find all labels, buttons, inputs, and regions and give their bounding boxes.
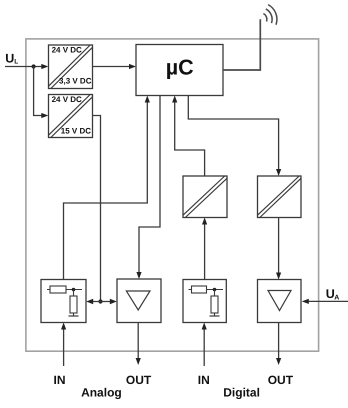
wire UL input xyxy=(5,64,48,69)
analog input conditioning block A xyxy=(41,280,86,323)
wire analog OUT terminal xyxy=(136,323,141,366)
U5 diagonal isolation bars xyxy=(258,176,302,218)
svg-text:3,3 V DC: 3,3 V DC xyxy=(59,77,92,86)
wire analog IN terminal xyxy=(61,323,66,367)
svg-text:24 V DC: 24 V DC xyxy=(52,95,82,104)
svg-text:OUT: OUT xyxy=(268,373,294,387)
analog bus bidirectional arrow xyxy=(86,299,117,305)
svg-text:U: U xyxy=(5,52,14,66)
svg-text:OUT: OUT xyxy=(126,373,152,387)
amplifier triangle block B xyxy=(126,291,150,310)
digital output driver block D xyxy=(258,280,302,323)
resistor R1 series xyxy=(50,286,66,293)
junction 15V rail tee xyxy=(98,299,102,303)
wire R4 to rail xyxy=(214,313,216,316)
svg-text:Analog: Analog xyxy=(81,385,122,399)
junction UL split xyxy=(31,64,35,68)
dc converter U1 box 24V/3.3V xyxy=(49,45,93,89)
svg-text:L: L xyxy=(14,59,18,66)
resistor R3 series xyxy=(192,286,207,293)
isolator U4 box digital-in xyxy=(183,176,227,218)
analog output driver block B xyxy=(117,279,161,323)
svg-text:µC: µC xyxy=(166,56,194,80)
wire 15V supply rail to analog bus xyxy=(93,116,101,302)
wire uC to antenna mast xyxy=(223,19,260,70)
wire digital-out isolator to block D xyxy=(276,218,281,280)
block A internal wire xyxy=(47,289,82,291)
wire block C to digital-in isolator xyxy=(202,218,207,280)
enclosure frame xyxy=(26,39,319,351)
svg-text:15 V DC: 15 V DC xyxy=(61,127,91,136)
rail bar block A xyxy=(69,315,79,317)
svg-text:IN: IN xyxy=(198,373,210,387)
wire U1 to uC xyxy=(93,64,137,69)
wire UA input xyxy=(302,299,348,304)
resistor R4 shunt xyxy=(211,296,218,313)
resistor R2 shunt xyxy=(70,296,77,313)
wire digital IN terminal xyxy=(202,323,207,367)
wire analog input block to uC xyxy=(64,96,150,280)
wire digital OUT terminal xyxy=(276,323,281,366)
U1 diagonal isolation bars xyxy=(49,45,93,89)
digital input conditioning block C xyxy=(183,280,226,323)
wire uC to digital-out isolator xyxy=(188,96,281,177)
amplifier triangle block D xyxy=(268,291,291,311)
svg-text:24 V DC: 24 V DC xyxy=(52,45,82,54)
node UL label xyxy=(5,52,18,66)
junction node R1/R2 xyxy=(72,288,76,292)
wire R2 to rail xyxy=(73,313,75,316)
wire R4 vertical xyxy=(214,290,216,297)
wire digital-in isolator to uC xyxy=(172,96,205,177)
wire uC to analog output driver xyxy=(136,96,160,280)
block C internal wire xyxy=(189,289,224,291)
U2 diagonal isolation bars xyxy=(49,95,93,138)
wire R2 vertical xyxy=(73,290,75,297)
svg-text:IN: IN xyxy=(54,373,66,387)
U4 diagonal isolation bars xyxy=(183,176,227,218)
node UA label xyxy=(326,287,340,302)
svg-text:A: A xyxy=(334,295,339,302)
wire UL to lower converter xyxy=(34,67,49,119)
microcontroller U3 box xyxy=(136,45,223,96)
svg-text:Digital: Digital xyxy=(223,385,260,399)
junction node R3/R4 xyxy=(213,288,217,292)
dc converter U2 box 24V/15V xyxy=(49,95,93,138)
antenna radio arcs xyxy=(263,5,277,25)
rail bar block C xyxy=(210,315,220,317)
isolator U5 box digital-out xyxy=(258,176,302,218)
